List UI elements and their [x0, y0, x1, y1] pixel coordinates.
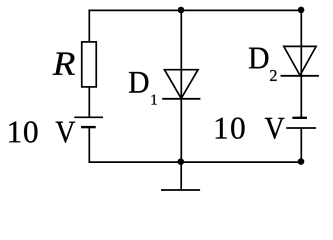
- label D1: [129, 72, 157, 105]
- battery V2 long positive plate: [286, 127, 316, 129]
- wire: top rail: [88, 9, 302, 11]
- label 10 V (battery V1 value): [9, 121, 75, 142]
- resistor R: [82, 42, 97, 87]
- label D2: [249, 48, 277, 81]
- wire: battery V2 to bottom rail: [300, 128, 302, 163]
- junction: bottom right corner node: [298, 158, 305, 165]
- wire: right branch (top rail through D2 to battery V2): [300, 10, 302, 117]
- label R: [53, 53, 75, 75]
- battery V2 short negative plate: [292, 117, 307, 119]
- junction: top right corner node: [298, 7, 305, 14]
- wire: battery V1 to bottom rail: [88, 127, 90, 163]
- wire: D1 branch vertical: [180, 10, 182, 162]
- junction: bottom node of D1 branch: [178, 158, 185, 165]
- battery V1 long positive plate: [74, 116, 103, 118]
- diode D1: [162, 70, 200, 99]
- junction: top node of D1 branch: [178, 7, 185, 14]
- diode D2: [281, 46, 319, 75]
- wire: left branch top (rail to resistor): [88, 10, 90, 43]
- ground: [161, 162, 200, 190]
- wire: bottom rail: [88, 161, 302, 163]
- label 10 V (battery V2 value): [216, 118, 285, 139]
- battery V1 short negative plate: [81, 126, 96, 128]
- wire: resistor to battery V1: [88, 87, 90, 117]
